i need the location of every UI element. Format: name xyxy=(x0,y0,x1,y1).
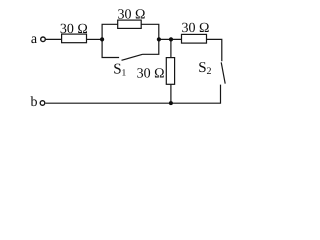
svg-text:30 Ω: 30 Ω xyxy=(137,66,165,81)
svg-text:b: b xyxy=(31,95,38,110)
svg-text:S1: S1 xyxy=(113,62,126,79)
svg-text:30 Ω: 30 Ω xyxy=(182,21,210,36)
svg-text:S2: S2 xyxy=(198,60,211,77)
svg-text:30 Ω: 30 Ω xyxy=(118,8,146,23)
svg-text:a: a xyxy=(31,32,38,47)
svg-text:30 Ω: 30 Ω xyxy=(60,22,88,37)
